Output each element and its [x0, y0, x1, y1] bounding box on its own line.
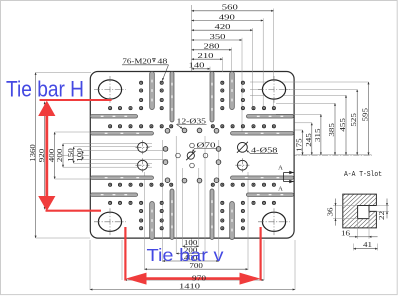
red horizontal arrow line (v) [126, 273, 260, 285]
dimension 1410 (bottom) [90, 281, 295, 290]
76 M20 tapped holes grid [109, 81, 276, 230]
D58 hole bottom-left [136, 158, 150, 172]
dimension 200 (left) [55, 144, 152, 168]
D58 hole top-right [237, 142, 248, 153]
svg-text:385: 385 [327, 123, 336, 137]
label Tie bar H [6, 77, 84, 102]
T-slot vertical bottom-left a [150, 202, 155, 240]
tie bar hole top-right [258, 76, 290, 103]
svg-text:315: 315 [313, 128, 322, 142]
tie bar hole top-left [94, 76, 126, 103]
dimension 150 (left) [66, 147, 152, 164]
svg-text:210: 210 [198, 51, 214, 60]
dimension 350 (top chain) [192, 32, 243, 41]
svg-text:595: 595 [361, 108, 370, 122]
top chain extension lines [210, 9, 274, 136]
dimension 455 (right chain) [338, 95, 347, 155]
label 76-M20 depth 48 [122, 57, 169, 81]
bottom chain extension lines [90, 136, 295, 290]
dimension 490 (top chain) [192, 12, 264, 21]
svg-text:A: A [278, 186, 283, 193]
center hole D70 [186, 151, 195, 160]
dimension 1360 (left) [28, 73, 91, 239]
detail dimension 36 [325, 199, 357, 226]
svg-text:22: 22 [377, 211, 386, 220]
svg-text:245: 245 [304, 133, 313, 147]
dimension 140 (top chain) [189, 61, 211, 70]
svg-text:16: 16 [341, 228, 350, 237]
svg-text:100: 100 [75, 148, 84, 162]
svg-text:280: 280 [204, 42, 220, 51]
T-slot vertical bottom-right b [210, 189, 214, 240]
dimension 970 (bottom, under red) [125, 279, 265, 281]
svg-text:1410: 1410 [179, 281, 200, 290]
dimension 200 (bottom chain) [176, 245, 205, 254]
small pilot holes near center [176, 143, 208, 168]
dimension 400 (left) [47, 132, 90, 179]
detail dimension 41 [354, 240, 378, 250]
T-slot horizontal bottom-right a [246, 193, 293, 197]
svg-text:490: 490 [219, 12, 235, 21]
svg-text:Ø70: Ø70 [197, 140, 217, 149]
red horizontal line tie bar H bottom [46, 210, 102, 212]
svg-text:525: 525 [349, 113, 358, 127]
T-slot vertical bottom-right a [230, 202, 235, 240]
dimension 970 value (over red) [192, 273, 206, 282]
label D70 [192, 140, 217, 152]
svg-text:920: 920 [37, 148, 46, 162]
T-slot vertical bottom-left b [170, 189, 174, 240]
T-slot horizontal bottom-left b [90, 176, 153, 180]
red vertical line tie bar v left [124, 227, 126, 281]
T-slot horizontal top-right b [231, 132, 294, 136]
label 4-D58 [246, 146, 278, 155]
12 D35 holes ring [163, 128, 221, 183]
dimension 700 (bottom chain) [145, 261, 249, 270]
label Tie bar v [147, 245, 224, 265]
svg-text:Tie bar v: Tie bar v [147, 245, 224, 265]
svg-text:175: 175 [295, 138, 304, 152]
svg-text:560: 560 [222, 3, 238, 12]
red vertical arrow line (H) [38, 101, 55, 211]
dimension 525 (right chain) [349, 90, 358, 155]
dimension 315 (right chain) [313, 114, 322, 155]
svg-text:4-Ø58: 4-Ø58 [251, 146, 278, 155]
right chain baseline [296, 154, 372, 156]
svg-text:36: 36 [325, 207, 334, 216]
dimension 400 (bottom chain) [163, 253, 219, 262]
T-slot vertical top-left b [170, 72, 174, 123]
detail title A-A T-Slot [344, 171, 382, 179]
svg-text:420: 420 [215, 22, 231, 31]
red vertical line tie bar v right [260, 227, 262, 281]
svg-text:1360: 1360 [28, 144, 37, 162]
svg-text:48: 48 [157, 57, 167, 66]
vertical centerline [191, 5, 193, 247]
T-slot detail block [303, 192, 400, 230]
svg-text:A-A T-Slot: A-A T-Slot [344, 171, 382, 179]
svg-text:Tie bar H: Tie bar H [6, 77, 84, 102]
dimension 920 (left, under red) [37, 102, 46, 210]
horizontal centerline [62, 155, 372, 157]
dimension 595 (right chain) [361, 82, 370, 155]
detail dimension 16 [341, 211, 378, 238]
T-slot vertical top-right b [210, 72, 214, 123]
svg-text:970: 970 [192, 273, 206, 282]
tie bar hole bottom-left [94, 208, 126, 235]
D58 hole top-left [136, 140, 150, 154]
svg-text:455: 455 [338, 118, 347, 132]
T-slot vertical top-left a [150, 72, 155, 110]
T-slot horizontal bottom-left a [90, 193, 137, 197]
svg-text:12-Ø35: 12-Ø35 [177, 116, 207, 125]
T-slot horizontal top-right a [246, 115, 293, 119]
dimension 100 (left) [75, 148, 168, 162]
right chain extension lines [250, 82, 369, 130]
svg-text:150: 150 [66, 148, 75, 162]
svg-text:76-M20: 76-M20 [122, 57, 151, 66]
svg-text:140: 140 [189, 61, 205, 70]
dimension 175 (right chain) [295, 130, 304, 155]
dimension 280 (top chain) [192, 42, 232, 51]
dimension 100 (bottom chain) [183, 238, 199, 247]
D58 hole bottom-right [235, 158, 249, 172]
svg-text:350: 350 [210, 32, 226, 41]
red horizontal line tie bar H top [40, 99, 112, 101]
T-slot vertical top-right a [230, 72, 235, 110]
platen plate outline [90, 72, 294, 239]
dimension 210 (top chain) [192, 51, 223, 60]
section mark A-A [278, 165, 293, 193]
svg-text:41: 41 [363, 240, 372, 249]
svg-text:A: A [278, 165, 283, 172]
dimension 245 (right chain) [304, 123, 313, 155]
tie bar hole bottom-right [258, 208, 290, 235]
svg-text:200: 200 [55, 148, 64, 162]
T-slot horizontal top-left b [90, 132, 153, 136]
dimension 420 (top chain) [192, 22, 253, 31]
T-slot horizontal top-left a [90, 115, 137, 119]
dimension 385 (right chain) [327, 103, 336, 155]
label 12-D35 [177, 116, 207, 128]
T-slot horizontal bottom-right b [231, 176, 294, 180]
dimension 560 (top chain) [192, 3, 274, 12]
detail dimension 22 [376, 199, 389, 221]
